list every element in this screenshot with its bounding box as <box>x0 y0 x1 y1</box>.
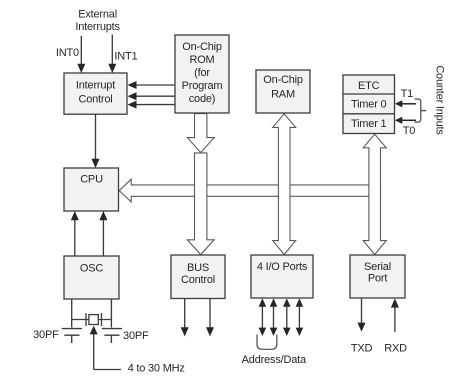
block OSC <box>64 256 119 299</box>
svg-text:On-Chip: On-Chip <box>182 41 222 53</box>
svg-text:Program: Program <box>182 80 223 92</box>
wire ROM to Interrupt Control arrow 1 <box>128 81 176 89</box>
svg-text:30PF: 30PF <box>123 330 149 342</box>
block ETC / Timer 0 / Timer 1 <box>343 75 395 134</box>
block CPU <box>64 168 119 211</box>
block BUS Control <box>171 255 225 299</box>
wire OSC to CPU arrow 2 <box>99 211 107 256</box>
block On-Chip ROM <box>175 35 229 113</box>
svg-text:OSC: OSC <box>80 263 103 275</box>
bracket counter inputs <box>415 99 427 122</box>
block Serial Port <box>350 255 405 298</box>
svg-text:ETC: ETC <box>358 80 380 92</box>
svg-text:4 I/O Ports: 4 I/O Ports <box>257 261 308 273</box>
wire OSC to CPU arrow 1 <box>71 211 79 256</box>
wire frequency callout arrow to crystal <box>90 326 121 370</box>
wire ROM to Interrupt Control arrow 3 <box>128 101 176 109</box>
svg-text:Counter Inputs: Counter Inputs <box>434 65 446 135</box>
svg-text:Address/Data: Address/Data <box>242 354 307 366</box>
svg-text:TXD: TXD <box>351 343 373 355</box>
wire OSC left leg <box>71 299 73 328</box>
wire RXD input arrow <box>391 298 399 331</box>
wire BUS Control output arrow 1 <box>181 299 189 337</box>
svg-text:BUS: BUS <box>187 262 209 274</box>
svg-text:ROM: ROM <box>189 54 214 66</box>
capacitor C2 30PF right <box>102 329 122 343</box>
svg-text:INT1: INT1 <box>114 51 137 63</box>
svg-text:RAM: RAM <box>271 89 295 101</box>
svg-text:4 to 30 MHz: 4 to 30 MHz <box>128 363 185 375</box>
wire INT0 arrow into Interrupt Control <box>77 36 85 73</box>
svg-text:Interrupts: Interrupts <box>75 21 120 33</box>
hollow double arrow Timers to Serial Port <box>363 134 386 254</box>
wire OSC right leg <box>110 299 112 328</box>
svg-text:Interrupt: Interrupt <box>76 80 115 92</box>
hollow double arrow RAM to 4 I/O Ports <box>273 114 296 255</box>
wire I/O port line 1 (double arrow) <box>259 298 267 336</box>
wire Interrupt Control to CPU <box>92 114 100 168</box>
wire BUS Control output arrow 2 <box>206 299 214 337</box>
svg-text:code): code) <box>189 93 216 105</box>
svg-text:External: External <box>78 9 117 21</box>
svg-text:Control: Control <box>181 274 215 286</box>
svg-text:CPU: CPU <box>80 174 103 186</box>
svg-text:T0: T0 <box>403 125 416 137</box>
svg-text:Port: Port <box>368 272 388 284</box>
bracket address/data <box>257 335 277 350</box>
svg-text:Serial: Serial <box>364 261 391 273</box>
svg-text:Timer 1: Timer 1 <box>351 118 387 130</box>
wire I/O port line 3 (double arrow) <box>283 298 291 336</box>
wire TXD output arrow <box>358 299 366 332</box>
svg-text:On-Chip: On-Chip <box>263 74 303 86</box>
wire INT1 arrow into Interrupt Control <box>108 35 116 74</box>
wire crystal horizontal <box>72 319 112 321</box>
block 4 I/O Ports <box>251 255 313 298</box>
block Interrupt Control <box>64 73 127 114</box>
wire I/O port line 2 (double arrow) <box>270 298 278 336</box>
wire T1 arrow into Timer 0 <box>395 100 416 107</box>
block On-Chip RAM <box>256 70 310 113</box>
svg-text:(for: (for <box>194 67 210 79</box>
wire ROM to Interrupt Control arrow 2 <box>128 92 176 100</box>
svg-text:RXD: RXD <box>384 343 407 355</box>
svg-text:INT0: INT0 <box>56 47 79 59</box>
wire I/O port line 4 (double arrow) <box>296 298 304 336</box>
crystal Y1 <box>86 313 102 326</box>
wire T0 arrow into Timer 1 <box>395 117 416 124</box>
hollow arrow bus to BUS Control <box>187 153 214 255</box>
svg-text:Timer 0: Timer 0 <box>351 98 387 110</box>
svg-text:T1: T1 <box>401 88 414 100</box>
capacitor C1 30PF left <box>62 329 82 343</box>
svg-text:30PF: 30PF <box>33 329 59 341</box>
main data/address bus (hollow arrow into CPU) <box>119 179 380 202</box>
svg-text:Control: Control <box>78 94 112 106</box>
hollow arrow ROM to bus <box>187 114 214 153</box>
